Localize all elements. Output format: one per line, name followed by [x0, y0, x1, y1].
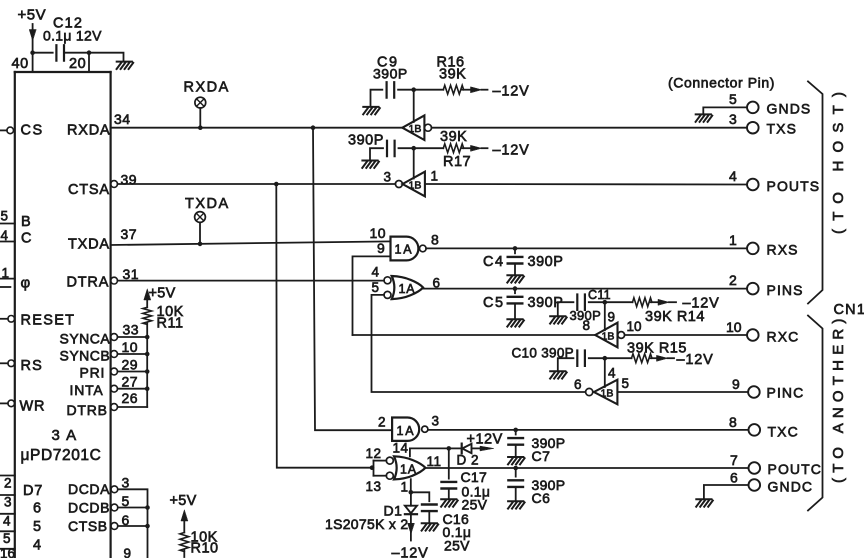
wire TXC (gate3 to connector) — [428, 429, 749, 431]
wire R11 chain vertical — [146, 323, 148, 407]
connector pin GNDS — [747, 102, 759, 114]
svg-text:10: 10 — [370, 225, 387, 241]
svg-text:3: 3 — [729, 111, 737, 127]
ground (C9) — [363, 107, 380, 114]
svg-text:6: 6 — [33, 501, 41, 517]
svg-text:5: 5 — [1, 209, 9, 224]
+5V arrow (R10) — [181, 510, 188, 533]
wire stub pin16 — [0, 548, 15, 550]
wire gate4 pin14 to D2 node — [410, 448, 449, 456]
svg-text:0.1μ 12V: 0.1μ 12V — [43, 28, 102, 44]
wire stub C — [0, 241, 15, 243]
pin DCDA bubble — [111, 486, 118, 493]
svg-text:10: 10 — [726, 319, 742, 335]
inverter output bubble (row1) — [425, 124, 432, 131]
capacitor 390P (row2) — [387, 141, 395, 156]
wire CTSB — [118, 525, 148, 527]
svg-text:(Connector Pin): (Connector Pin) — [668, 75, 775, 91]
svg-text:26: 26 — [122, 390, 139, 406]
svg-text:DTRB: DTRB — [67, 402, 108, 418]
svg-text:2: 2 — [729, 272, 737, 288]
wire RXC (inverter to connector) — [625, 334, 747, 336]
svg-text:39K: 39K — [439, 67, 466, 83]
svg-text:RESET: RESET — [21, 313, 76, 329]
svg-text:3 A: 3 A — [52, 427, 78, 444]
wire PINC (inverter to connector) — [617, 391, 748, 393]
wire DTRA (pin31 to gate input 4) — [118, 280, 385, 282]
wire SYNCB — [118, 353, 148, 355]
pin label TXDA 37 — [68, 226, 137, 253]
wire DTRB — [118, 406, 148, 408]
wire ground to C11 — [558, 302, 574, 316]
wire stub D7 (pin2) — [0, 475, 15, 477]
pin label DTRA 31 — [67, 266, 140, 291]
svg-text:3: 3 — [384, 170, 392, 185]
test point RXDA — [195, 97, 206, 108]
svg-text:PINC: PINC — [767, 385, 805, 401]
wire CTSA branch to gate 1A pins 12 13 — [276, 184, 372, 468]
wire DCDA — [118, 489, 148, 558]
svg-text:3: 3 — [4, 495, 12, 510]
wire C6 lead — [515, 468, 517, 477]
wire C10 to R15 — [589, 357, 632, 359]
gate 4 input bubble 12 — [386, 457, 393, 464]
pin label RXDA 34 — [67, 111, 131, 139]
pin RESET bubble — [8, 316, 15, 323]
wire stub pin3 — [0, 494, 15, 496]
wire gate2 input 5 — [372, 295, 586, 392]
node C10/R15 junction — [603, 356, 608, 361]
svg-text:5: 5 — [3, 531, 11, 546]
svg-text:2: 2 — [4, 476, 12, 491]
bracket TO ANOTHER — [808, 316, 823, 511]
pin label CTSA 39 — [68, 172, 137, 199]
svg-text:9: 9 — [377, 240, 385, 256]
svg-text:39: 39 — [121, 172, 138, 188]
svg-text:27: 27 — [122, 374, 139, 390]
wire CTSA (pin39 to inverter) — [118, 183, 396, 185]
wire R14 to -12V arrow — [651, 299, 677, 305]
wire gate4 stub 12 — [374, 460, 387, 462]
node gate4 input junction — [370, 465, 375, 470]
svg-text:TXC: TXC — [768, 424, 799, 440]
wire C17 to ground — [448, 489, 450, 500]
pin label SYNCB 10 — [60, 339, 139, 364]
ground (C12) — [117, 62, 134, 69]
svg-text:(TO ANOTHER): (TO ANOTHER) — [830, 313, 847, 483]
wire C5 bottom lead — [514, 303, 516, 319]
pin SYNCB bubble — [111, 351, 118, 358]
capacitor C17 — [442, 482, 457, 489]
ground (C7) — [508, 457, 525, 464]
node cap/R17 junction — [411, 146, 416, 151]
pin RS bubble — [8, 360, 15, 367]
wire TXS (inverter to connector) — [432, 127, 748, 129]
wire C12 to ground — [64, 53, 124, 62]
wire POUTS (inverter to connector) — [425, 183, 747, 186]
svg-text:390P: 390P — [373, 66, 408, 82]
wire R16 to -12V arrow — [462, 87, 487, 93]
ground (C16) — [422, 523, 439, 530]
pin DTRB bubble — [111, 404, 118, 411]
pin label 1 phi — [2, 266, 31, 292]
inverter 1B (TXS to RXDA) — [402, 115, 424, 140]
ground (GNDC) — [696, 499, 713, 506]
wire C11 to R14 — [589, 301, 633, 303]
wire RXC inverter output to gate1 branch — [353, 334, 596, 336]
connector pin RXS — [747, 243, 759, 255]
wire C6 to ground — [515, 487, 517, 501]
pin label DCDA 3 — [68, 475, 130, 498]
svg-text:4: 4 — [33, 538, 41, 554]
wire GNDS stub — [703, 107, 747, 114]
svg-text:390P: 390P — [348, 133, 384, 149]
node C6 junction — [513, 466, 518, 471]
svg-text:GNDC: GNDC — [768, 479, 814, 495]
wire CS stub — [0, 129, 7, 131]
wire C9 to R16 — [398, 89, 443, 91]
svg-text:9: 9 — [732, 376, 740, 392]
svg-text:5: 5 — [372, 280, 380, 295]
ground (C17) — [441, 499, 458, 506]
pin label DCDB 5 — [68, 493, 130, 516]
nand gate 1A (RXS) — [391, 237, 427, 261]
svg-text:C4: C4 — [483, 254, 505, 270]
inverter output bubble (row2) — [395, 181, 402, 188]
bracket TO HOST — [808, 81, 823, 303]
wire stub pin5 — [0, 530, 15, 532]
wire stub phi — [0, 278, 15, 280]
wire C4 bottom lead — [514, 264, 516, 275]
svg-text:+5V: +5V — [18, 7, 47, 24]
wire junction to inverter input (row2) — [413, 148, 415, 178]
node C4 junction — [513, 246, 518, 251]
svg-text:μPD7201C: μPD7201C — [21, 447, 102, 464]
svg-text:2: 2 — [378, 415, 386, 430]
wire C5 top lead — [514, 289, 516, 294]
wire below R10 — [183, 550, 185, 557]
wire R17 to -12V arrow — [462, 145, 487, 151]
svg-text:INTA: INTA — [70, 382, 104, 398]
node D1/C16 junction — [409, 490, 414, 495]
svg-text:C5: C5 — [483, 295, 505, 311]
connector pin PINC — [748, 386, 760, 398]
svg-text:B: B — [21, 214, 31, 230]
svg-text:13: 13 — [366, 479, 382, 494]
svg-text:7: 7 — [730, 452, 738, 468]
gate 2 input bubble 5 — [384, 291, 391, 298]
svg-text:RS: RS — [21, 358, 44, 374]
wire stub pin4 — [0, 513, 15, 515]
wire RXDA test lead — [199, 108, 201, 128]
svg-text:TXDA: TXDA — [185, 196, 230, 212]
svg-text:SYNCB: SYNCB — [60, 348, 111, 364]
wire D1 to -12V arrow — [408, 514, 415, 540]
svg-text:1: 1 — [401, 480, 409, 495]
svg-text:RXS: RXS — [767, 242, 799, 258]
node C5 junction — [513, 286, 518, 291]
wire ground to cap (row2) — [370, 148, 383, 160]
connector pin POUTC — [749, 462, 761, 474]
wire PINS (gate2 to connector) — [423, 288, 747, 290]
svg-text:1A: 1A — [400, 463, 417, 477]
svg-text:6: 6 — [730, 470, 738, 486]
pin label INTA 27 — [70, 374, 139, 399]
ground (C4) — [507, 275, 524, 282]
wire C7 to ground — [515, 445, 517, 457]
capacitor C16 — [422, 505, 437, 512]
svg-text:390P: 390P — [528, 254, 564, 270]
svg-text:φ: φ — [21, 275, 31, 292]
svg-text:C: C — [21, 231, 31, 247]
svg-text:PRI: PRI — [80, 365, 106, 381]
svg-text:20: 20 — [69, 56, 86, 72]
pin CS bubble — [7, 127, 14, 134]
wire stub B — [0, 223, 15, 225]
wire DCDB — [118, 507, 148, 509]
svg-text:PINS: PINS — [767, 282, 804, 298]
wire POUTC (gate4 to connector) — [425, 467, 748, 469]
svg-text:1: 1 — [431, 169, 439, 184]
wire WR stub — [0, 402, 8, 404]
wire C7 lead — [515, 430, 517, 435]
inverter output bubble (PINC) — [586, 388, 593, 395]
pin INTA bubble — [111, 385, 118, 392]
svg-text:5: 5 — [33, 519, 41, 535]
svg-text:8: 8 — [583, 318, 591, 333]
svg-text:C11: C11 — [588, 288, 611, 302]
svg-text:(TO HOST): (TO HOST) — [830, 84, 847, 234]
pin 20 lead — [88, 53, 90, 72]
wire junction to PINC inverter — [604, 358, 606, 387]
svg-text:R11: R11 — [157, 316, 184, 332]
wire TXDA test lead — [199, 222, 201, 244]
ground (GNDS) — [696, 114, 713, 121]
resistor R10 — [180, 533, 189, 552]
capacitor C9 — [387, 82, 395, 97]
svg-text:39K: 39K — [440, 129, 467, 145]
svg-text:14: 14 — [393, 441, 409, 456]
node pin20 junction — [87, 50, 92, 55]
svg-text:1B: 1B — [602, 331, 615, 343]
pin label PRI 29 — [80, 357, 139, 381]
inverter 1B (POUTS to CTSA) — [403, 172, 425, 197]
wire RXDA (pin34 to inverter 1B) — [111, 127, 403, 129]
wire gate4 stub 13 — [374, 475, 387, 477]
svg-text:1B: 1B — [601, 388, 614, 400]
svg-text:1B: 1B — [409, 180, 422, 192]
connector pin RXC — [747, 329, 759, 341]
node +5V/pin40 junction — [30, 50, 35, 55]
wire R15 to -12V arrow — [651, 355, 675, 361]
wire ground to C10 — [558, 358, 574, 371]
resistor R16 — [443, 85, 463, 94]
svg-text:4: 4 — [372, 265, 380, 280]
pin 40 lead — [32, 53, 34, 72]
connector pin PINS — [747, 283, 759, 295]
diode D1 — [405, 492, 417, 514]
wire RXDA branch to gate 1A input — [313, 128, 392, 431]
wire GNDC stub — [704, 485, 749, 499]
diode D2 — [449, 444, 494, 454]
svg-text:+12V: +12V — [467, 432, 503, 448]
op-amp U1 (uPD7201C IC outline) — [15, 72, 111, 558]
wire gate4 pin1 lead — [410, 479, 412, 492]
svg-text:CS: CS — [21, 123, 44, 139]
wire INTA — [118, 388, 148, 390]
node INTA junction — [145, 386, 150, 391]
node CTSB junction — [145, 524, 150, 529]
resistor R15 — [632, 354, 652, 363]
ground (C10) — [550, 371, 567, 378]
pin CTSB bubble — [111, 523, 118, 530]
pin label DTRB 26 — [67, 390, 139, 418]
svg-text:37: 37 — [121, 226, 138, 242]
wire C16 to ground — [428, 511, 430, 523]
resistor R17 — [443, 144, 463, 153]
wire junction to C16 — [411, 492, 430, 501]
svg-text:RXDA: RXDA — [67, 123, 111, 139]
svg-text:SYNCA: SYNCA — [60, 331, 111, 347]
inverter 1B (RXC) — [595, 323, 617, 348]
svg-text:C6: C6 — [532, 490, 551, 506]
wire junction to inverter input — [413, 90, 415, 122]
pin CTSA bubble — [111, 181, 118, 188]
capacitor C10 — [577, 351, 585, 366]
ground (C5) — [507, 319, 524, 326]
wire ground to C9 — [371, 90, 383, 107]
svg-text:R17: R17 — [443, 154, 471, 170]
wire D2 node to C17 — [448, 448, 450, 478]
svg-text:34: 34 — [114, 111, 131, 127]
svg-text:DCDB: DCDB — [68, 500, 110, 516]
nand gate 1A (TXC) — [392, 418, 428, 441]
svg-text:D7: D7 — [23, 483, 43, 499]
svg-text:RXC: RXC — [767, 329, 800, 345]
svg-text:5: 5 — [622, 376, 630, 391]
pin DTRA bubble — [111, 277, 118, 284]
node RXDA branch — [311, 125, 316, 130]
svg-text:POUTS: POUTS — [767, 178, 821, 194]
wire gate4 input bracket — [373, 461, 375, 476]
svg-text:+5V: +5V — [149, 286, 176, 302]
wire stub below phi — [0, 286, 10, 288]
svg-text:–12V: –12V — [392, 546, 429, 558]
wire +5V to C12 — [33, 52, 53, 54]
wire RESET stub — [0, 318, 8, 320]
capacitor C6 — [508, 480, 523, 487]
pin DCDB bubble — [111, 504, 118, 511]
wire RXS (gate1 to connector) — [426, 247, 747, 249]
svg-text:1S2075K x 2: 1S2075K x 2 — [325, 516, 408, 532]
svg-text:1A: 1A — [397, 424, 416, 438]
wire C4 top lead — [514, 248, 516, 253]
svg-text:DCDA: DCDA — [68, 481, 110, 497]
wire junction to RXC inverter — [604, 302, 606, 330]
node C7 junction — [513, 428, 518, 433]
node C9/R16 junction — [411, 87, 416, 92]
svg-text:8: 8 — [431, 232, 439, 248]
svg-text:39K R15: 39K R15 — [627, 341, 687, 357]
node SYNCB junction — [145, 352, 150, 357]
+5V feed arrow — [29, 24, 36, 53]
gate 4 input bubble 13 — [386, 472, 393, 479]
svg-text:4: 4 — [3, 514, 11, 529]
node PRI junction — [145, 369, 150, 374]
capacitor C5 — [508, 297, 523, 304]
wire PRI — [118, 371, 148, 373]
svg-text:4: 4 — [729, 168, 737, 184]
svg-text:GNDS: GNDS — [767, 101, 812, 117]
svg-text:CTSA: CTSA — [68, 182, 110, 198]
node RXDA test junction — [198, 125, 203, 130]
node DCDB junction — [145, 505, 150, 510]
svg-text:DTRA: DTRA — [67, 275, 110, 291]
svg-text:D 2: D 2 — [457, 453, 480, 468]
connector pin TXC — [749, 424, 761, 436]
pin label 5 B — [1, 209, 31, 231]
svg-text:–12V: –12V — [493, 143, 530, 159]
svg-text:3: 3 — [432, 414, 440, 429]
gate 2 input bubble 4 — [384, 277, 391, 284]
svg-text:39K R14: 39K R14 — [645, 309, 705, 325]
svg-text:1: 1 — [729, 232, 737, 248]
svg-text:4: 4 — [608, 366, 616, 381]
resistor R11 — [143, 307, 152, 324]
ground (row2 cap) — [362, 161, 379, 168]
svg-text:40: 40 — [12, 56, 29, 72]
ground (C6) — [508, 501, 525, 508]
svg-text:POUTC: POUTC — [768, 461, 823, 477]
svg-text:R10: R10 — [191, 541, 219, 557]
resistor R14 — [633, 298, 652, 307]
svg-text:11: 11 — [427, 454, 442, 469]
svg-text:12: 12 — [366, 446, 382, 461]
pin label CTSB 6 — [68, 512, 130, 534]
capacitor C4 — [508, 257, 523, 264]
svg-text:33: 33 — [123, 322, 140, 338]
svg-text:10: 10 — [122, 339, 139, 355]
capacitor C7 — [508, 438, 523, 445]
+5V arrow (R11) — [144, 289, 151, 307]
svg-text:3: 3 — [122, 475, 130, 491]
pin PRI bubble — [111, 368, 118, 375]
node CTSA branch — [274, 182, 279, 187]
wire TXDA (pin37 to gate input 10) — [111, 241, 391, 245]
svg-text:1B: 1B — [409, 123, 422, 135]
node C11/R14 junction — [603, 300, 608, 305]
svg-text:+5V: +5V — [170, 493, 197, 509]
pin label SYNCA 33 — [60, 322, 140, 347]
svg-text:25V: 25V — [444, 538, 470, 554]
ground (C11) — [550, 316, 567, 323]
connector pin GNDC — [749, 479, 761, 491]
inverter output bubble (RXC) — [618, 332, 625, 339]
svg-text:C7: C7 — [532, 448, 551, 464]
svg-text:CTSB: CTSB — [68, 518, 108, 534]
or-shape gate 1A (PINS) — [392, 276, 423, 299]
inverter 1B (PINC) — [594, 380, 618, 405]
connector pin TXS — [747, 122, 759, 134]
svg-text:1A: 1A — [395, 243, 414, 257]
svg-text:16: 16 — [0, 546, 15, 558]
svg-text:9: 9 — [124, 546, 132, 558]
svg-text:–12V: –12V — [493, 84, 530, 100]
svg-text:TXS: TXS — [767, 121, 798, 137]
pin SYNCA bubble — [111, 334, 118, 341]
svg-text:RXDA: RXDA — [184, 80, 230, 96]
connector pin POUTS — [747, 179, 759, 191]
